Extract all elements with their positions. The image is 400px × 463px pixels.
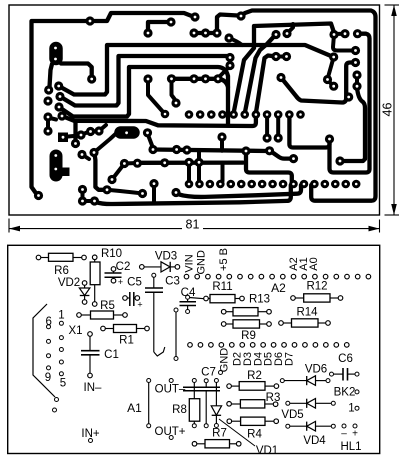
svg-text:R14: R14 [296, 307, 318, 319]
wire: top-right loop rail to bottom-right U [241, 11, 376, 201]
pad [351, 46, 360, 55]
svg-text:VIN: VIN [184, 254, 196, 272]
pad [172, 145, 181, 154]
jumper capsule pad bottom-left [50, 156, 63, 175]
svg-text:R4: R4 [247, 429, 262, 441]
pad [271, 52, 280, 61]
wire link [91, 129, 100, 134]
pad stack near x230 [225, 53, 234, 62]
svg-text:R8: R8 [172, 404, 187, 416]
svg-text:R6: R6 [54, 265, 69, 277]
wire: right cluster pad1 riser to pad4 [333, 35, 354, 51]
svg-text:VD6: VD6 [305, 364, 327, 376]
pad [329, 82, 338, 91]
pad [34, 191, 43, 200]
pad pair with vertical link [43, 112, 52, 121]
pad top of x95 rail with diagonal to capsule [89, 148, 98, 157]
pad [43, 96, 52, 105]
pad [201, 28, 210, 37]
pad with curve into y45 rail [224, 33, 233, 42]
svg-text:A1: A1 [127, 401, 142, 415]
wire diagonal [328, 57, 334, 79]
pad riser from row [263, 133, 272, 142]
svg-text:BK2: BK2 [334, 387, 356, 399]
jumper capsule pad top-left [49, 49, 63, 59]
pad holes overlay [37, 15, 359, 203]
pad [171, 98, 180, 107]
pad [120, 159, 129, 168]
wire lower bus y162 [137, 160, 243, 164]
pad [271, 30, 280, 39]
X1 pin pads staggered [47, 325, 51, 329]
wire vertical x75 from bus to pad [73, 122, 77, 142]
pad cluster bottom-left: pad [90, 196, 99, 205]
wire bus y79 [172, 79, 229, 87]
pad [87, 74, 96, 83]
wire links [83, 190, 95, 202]
wire from square pad [68, 136, 79, 137]
pad row middle y345 [188, 343, 193, 348]
diagonal trace d2 [245, 37, 274, 113]
wire to bus [99, 125, 106, 131]
wire capsule drop to pad [50, 64, 53, 87]
wire link [124, 161, 137, 166]
svg-text:C2: C2 [116, 261, 131, 273]
wire stub from lower bus to row pad [221, 163, 225, 181]
svg-text:+: + [137, 300, 142, 310]
wire x365 rail from pad pair [342, 87, 365, 161]
pad [78, 185, 87, 194]
svg-text:1: 1 [58, 310, 64, 322]
pad riser from row [274, 133, 283, 142]
pads OUT net [169, 379, 173, 383]
svg-text:A2: A2 [271, 281, 286, 295]
pad on bus [133, 159, 142, 168]
wire diagonal [219, 66, 230, 77]
pad [340, 29, 349, 38]
square pad [58, 133, 68, 143]
svg-text:C7: C7 [201, 367, 216, 379]
wire from pad 148,79 down-left zigzag [148, 79, 164, 113]
pad at bottom of x75 rail [71, 139, 80, 148]
pad [189, 74, 198, 83]
pad [352, 82, 361, 91]
pad T2 upper [143, 28, 152, 37]
wire diagonal from capsule-right pad to y150 bus [148, 134, 153, 148]
svg-text:R2: R2 [247, 370, 262, 382]
svg-text:+: + [118, 277, 123, 287]
jumper capsule horizontal mid-board [121, 126, 134, 139]
LED HL1 pads [342, 424, 346, 428]
pad [43, 126, 52, 135]
svg-text:5: 5 [60, 378, 66, 390]
svg-text:+5 В: +5 В [218, 248, 230, 271]
pad [323, 75, 332, 84]
svg-text:VD3: VD3 [155, 250, 177, 262]
wire T2 [148, 22, 170, 33]
pad [85, 16, 94, 25]
pad [344, 92, 353, 101]
pad [182, 145, 191, 154]
pad end of x365 rail [335, 156, 344, 165]
wire stub down from 171.5,79 [172, 79, 177, 101]
pad [54, 81, 63, 90]
svg-text:R12: R12 [306, 281, 327, 293]
svg-text:C3: C3 [165, 275, 180, 287]
pad at left end of y196 rail [171, 188, 180, 197]
pad [166, 17, 175, 26]
pad at jog [265, 146, 274, 155]
svg-text:GND: GND [219, 348, 231, 373]
pad [190, 12, 199, 21]
pad [54, 102, 63, 111]
wire riser linking buses [197, 150, 201, 162]
svg-text:C6: C6 [338, 353, 353, 365]
pad [55, 92, 64, 101]
svg-text:OUT–: OUT– [155, 384, 186, 396]
pad right of capsule [143, 128, 152, 137]
wire: nested rail 1 from pad cluster to y45 [59, 45, 331, 95]
svg-text:D7: D7 [284, 352, 296, 366]
svg-text:GND: GND [196, 250, 208, 275]
svg-text:X1: X1 [68, 325, 82, 337]
pad with stub to bottom row [184, 158, 193, 167]
wire: top trace from pad to pad R area [90, 13, 193, 21]
svg-text:–: – [341, 429, 347, 440]
wire vertical x95 with corner to pad [95, 154, 106, 190]
pad [353, 29, 362, 38]
wire A vertical x176 [175, 311, 177, 357]
pad with hook to top bus [282, 29, 291, 38]
wire link from bus-A pad down-right to row pad [246, 152, 292, 182]
pad [212, 28, 221, 37]
svg-text:R11: R11 [212, 281, 232, 293]
svg-text:R3: R3 [266, 392, 281, 404]
wire from capsule to pad [61, 64, 92, 77]
wire long middle bus y121-125 [62, 116, 256, 126]
svg-text:HL1: HL1 [340, 441, 361, 453]
diode VD1 vertical [215, 382, 217, 406]
wire far riser from row to hook pad [289, 116, 329, 148]
pad junction [276, 73, 285, 82]
pad [289, 154, 298, 163]
svg-text:VD1: VD1 [256, 445, 278, 457]
svg-text:C1: C1 [104, 349, 119, 361]
dimension line 46 (right) [385, 5, 400, 215]
wire: long bottom rail from row pad [95, 185, 291, 204]
pad on bus [160, 158, 169, 167]
pad with stub down to bus [217, 132, 226, 141]
wire: nested rail 2 from pad cluster to y56 [60, 56, 230, 106]
pad [86, 127, 95, 136]
pad row IC2 y114.5 [185, 110, 194, 119]
pad [76, 130, 85, 139]
diode VD4 [289, 425, 307, 427]
svg-text:81: 81 [186, 217, 200, 231]
svg-text:C5: C5 [127, 277, 142, 289]
svg-text:VD5: VD5 [281, 409, 303, 421]
pad feeding long middle bus [57, 111, 66, 120]
resistor R6 [39, 257, 49, 259]
diode VD5 [289, 402, 307, 404]
pad with vertical to bottom rail [149, 179, 158, 188]
pad top of left hook [325, 134, 334, 143]
svg-text:46: 46 [381, 103, 395, 117]
component side: board outline [8, 245, 380, 453]
svg-text:VD2: VD2 [58, 277, 80, 289]
pad with curved link [102, 185, 111, 194]
pad trio T3 with riser to top rail [194, 15, 238, 34]
pad row IC1 y114 [161, 110, 170, 119]
svg-text:A0: A0 [308, 257, 320, 270]
pad [329, 30, 338, 39]
pad row bottom y184 [185, 180, 194, 189]
wire: left vertical trace with top horizontal to pad [32, 21, 91, 194]
pad with diagonal riser [107, 175, 116, 184]
pad cluster left-middle [44, 85, 53, 94]
pad pair above x95 rail [77, 150, 86, 159]
svg-text:1: 1 [348, 403, 354, 415]
pad IN+ [89, 439, 93, 443]
pad [148, 145, 157, 154]
svg-text:VD4: VD4 [303, 435, 326, 447]
svg-text:R9: R9 [241, 330, 256, 342]
wire bus y150 with jog [153, 150, 293, 159]
pad [282, 52, 291, 61]
wire link [81, 132, 88, 135]
pad [201, 74, 210, 83]
svg-text:IN+: IN+ [81, 428, 100, 440]
dimension line 81 (bottom) [9, 219, 380, 233]
wire link [334, 32, 344, 36]
wire: nested rail 3 from pad cluster to y67 [59, 67, 228, 126]
square tab on capsule [60, 168, 70, 177]
pad [94, 126, 103, 135]
diagonal trace d3 [256, 56, 274, 114]
svg-text:IN–: IN– [84, 382, 103, 394]
pad pair right with x365 rail feed [352, 70, 361, 79]
pad [167, 74, 176, 83]
svg-text:R13: R13 [249, 294, 270, 306]
diagonal trace d1 to top bus y23 [234, 24, 334, 114]
pad row top y276.2 [184, 274, 189, 279]
svg-text:R7: R7 [212, 428, 227, 440]
wire [328, 80, 334, 87]
svg-text:R10: R10 [101, 248, 122, 260]
svg-text:+: + [352, 429, 358, 440]
pad P8 with long left line [351, 58, 360, 67]
wire A1 vertical [148, 382, 150, 426]
pad on bus [241, 146, 250, 155]
pad [213, 74, 222, 83]
svg-text:R5: R5 [100, 300, 115, 312]
PCB top side: board outline [9, 5, 380, 215]
connector X1 outline [33, 304, 55, 397]
pad row y79 with bus [143, 74, 152, 83]
pad [138, 189, 147, 198]
pad [225, 61, 234, 70]
svg-text:R1: R1 [119, 335, 134, 347]
pad with stub to bottom row [194, 158, 203, 167]
svg-text:9: 9 [45, 372, 51, 384]
wire link [276, 55, 286, 59]
wire: y196 rail from row pad to end pad [179, 185, 302, 197]
pad [236, 11, 245, 20]
wire: right vertical rail x370 down to left hook with pad [330, 34, 370, 173]
pad [78, 196, 87, 205]
pad from y45 trace [329, 52, 338, 61]
